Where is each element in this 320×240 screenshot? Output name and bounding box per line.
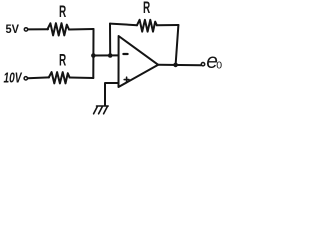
svg-text:R: R bbox=[59, 51, 66, 70]
op-amp U1 triangle bbox=[119, 36, 159, 87]
resistor R3 feedback zigzag bbox=[137, 20, 157, 32]
wire R1 to top corner bbox=[69, 28, 94, 31]
wire 10V terminal to R2 bbox=[28, 76, 49, 79]
wire op-amp output bbox=[158, 64, 201, 66]
svg-text:10V: 10V bbox=[4, 69, 23, 86]
op-amp U1 minus sign bbox=[123, 53, 127, 55]
wire vertical joining 5V and 10V branches bbox=[92, 29, 94, 78]
wire R2 to bottom corner bbox=[70, 77, 94, 80]
resistor R2 zigzag bbox=[49, 72, 70, 83]
resistor R1 zigzag bbox=[48, 23, 70, 35]
svg-text:R: R bbox=[59, 2, 66, 21]
node 5V input terminal bbox=[24, 28, 27, 31]
wire feedback top rail left bbox=[110, 24, 137, 26]
wire feedback right vertical bbox=[176, 25, 179, 65]
wire feedback top rail right bbox=[157, 24, 179, 26]
junction output feedback dot bbox=[173, 63, 178, 68]
junction summing node dot bbox=[91, 53, 96, 58]
node output terminal bbox=[201, 62, 204, 65]
junction feedback tap dot bbox=[108, 53, 113, 58]
wire op-amp noninverting input bbox=[105, 83, 119, 105]
wire summing node to op-amp inverting input bbox=[93, 54, 118, 56]
svg-text:R: R bbox=[143, 0, 150, 17]
ground symbol bbox=[94, 106, 109, 114]
wire 5V terminal to R1 bbox=[28, 28, 48, 30]
svg-text:0: 0 bbox=[216, 60, 222, 72]
node 10V input terminal bbox=[24, 77, 27, 80]
op-amp U1 plus sign bbox=[124, 77, 129, 82]
svg-text:5V: 5V bbox=[6, 22, 20, 36]
wire feedback left vertical bbox=[109, 24, 111, 56]
